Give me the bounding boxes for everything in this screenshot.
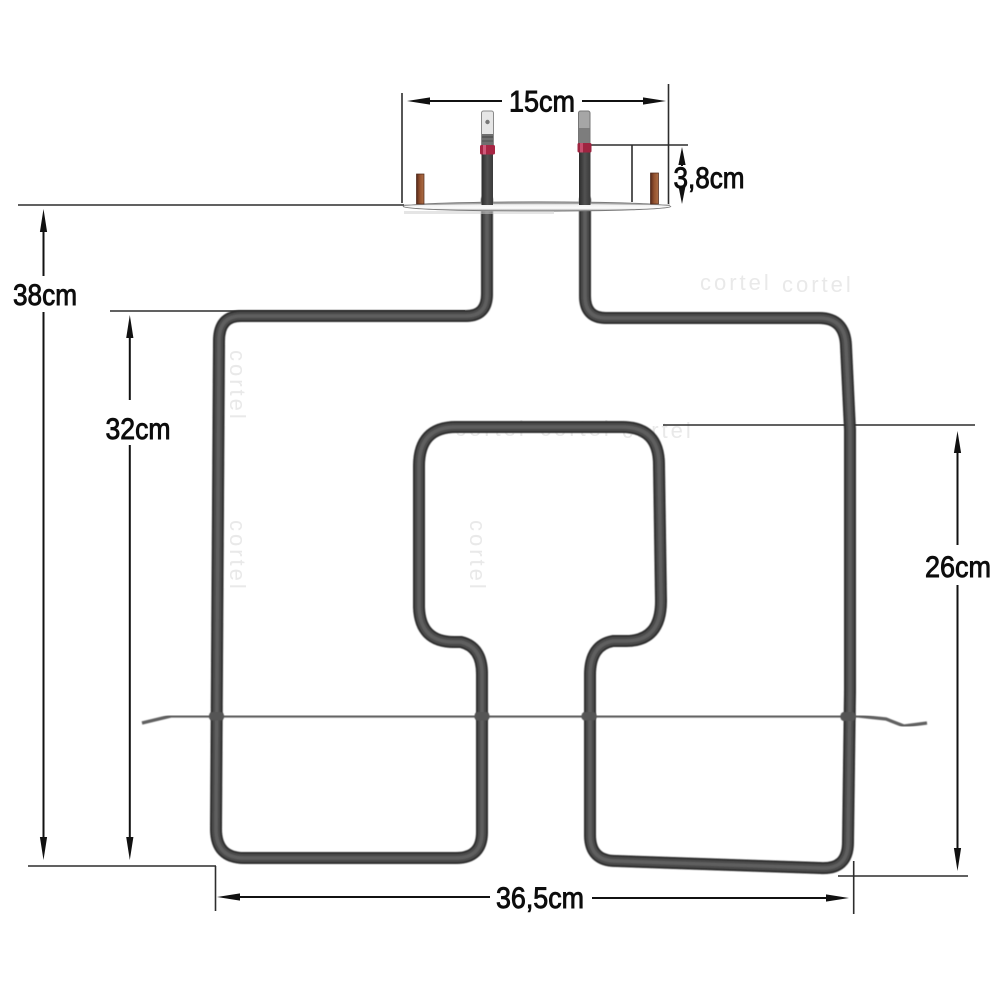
svg-text:cortel: cortel <box>465 520 490 592</box>
svg-text:32cm: 32cm <box>106 413 171 446</box>
svg-text:cortel: cortel <box>225 520 250 592</box>
svg-text:cortel: cortel <box>782 272 854 297</box>
svg-text:3,8cm: 3,8cm <box>674 162 745 195</box>
svg-text:cortel: cortel <box>700 270 772 295</box>
svg-text:26cm: 26cm <box>925 551 991 584</box>
svg-text:cortel: cortel <box>225 350 250 422</box>
svg-text:15cm: 15cm <box>509 86 575 119</box>
svg-text:36,5cm: 36,5cm <box>496 882 584 915</box>
svg-text:38cm: 38cm <box>13 279 77 312</box>
